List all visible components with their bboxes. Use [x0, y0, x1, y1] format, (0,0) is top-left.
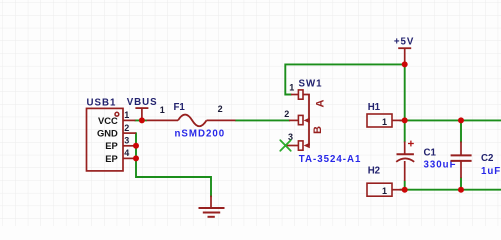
- wire C2 top segment: [460, 120, 462, 142]
- svg-text:1: 1: [289, 82, 294, 92]
- svg-text:C1: C1: [424, 148, 437, 159]
- svg-text:nSMD200: nSMD200: [175, 128, 226, 139]
- junction USB pin3 node: [133, 143, 139, 149]
- svg-text:2: 2: [218, 104, 223, 114]
- wire C2 bottom segment: [460, 178, 462, 190]
- junction C2 top node: [458, 117, 464, 123]
- connector USB1 body: [87, 108, 124, 170]
- SW1 common bar from pin1: [303, 95, 309, 146]
- H2 body: [367, 183, 392, 196]
- svg-text:C2: C2: [481, 153, 493, 164]
- svg-text:1uF: 1uF: [481, 166, 501, 177]
- svg-text:GND: GND: [97, 128, 118, 139]
- SW1 throw arrow at pin 3: [304, 143, 310, 149]
- C1 plus sign: [408, 141, 414, 147]
- junction VBUS node: [139, 117, 145, 123]
- +5V supply stem: [404, 48, 406, 64]
- USB1 pin 1 stub: [123, 119, 136, 121]
- svg-text:USB1: USB1: [87, 97, 117, 108]
- svg-text:1: 1: [124, 110, 129, 120]
- C1 top pin: [404, 142, 406, 155]
- USB1 pin 4 stub: [123, 157, 134, 159]
- wire SW1 pin1 riser to +5V rail: [285, 64, 404, 94]
- wire VBUS: USB1 pin1 to F1 pin1: [135, 119, 147, 121]
- ground stem: [210, 196, 212, 208]
- wire +5V column down to top bus: [404, 64, 406, 120]
- svg-text:2: 2: [284, 109, 289, 119]
- SW1 pin 3 contact: [298, 141, 303, 150]
- C2 top plate: [451, 154, 472, 156]
- C2 bottom pin: [460, 161, 462, 178]
- svg-text:VBUS: VBUS: [127, 97, 158, 108]
- junction USB pin4 node: [133, 155, 139, 161]
- junction H1/+5V/C1 top node: [402, 117, 408, 123]
- svg-text:2: 2: [124, 123, 129, 133]
- svg-text:SW1: SW1: [299, 79, 323, 90]
- no-connect X on SW1 pin 3: [280, 140, 290, 151]
- svg-text:1: 1: [382, 186, 387, 196]
- C1 curved negative plate: [396, 158, 414, 161]
- C1 bottom pin: [404, 161, 406, 181]
- SW1 throw arrow at pin 2: [304, 118, 310, 124]
- USB1 pin 2 stub: [123, 132, 136, 134]
- +5V supply bar: [398, 47, 411, 49]
- svg-text:4: 4: [124, 148, 129, 158]
- C2 bottom plate: [451, 160, 472, 162]
- svg-text:3: 3: [124, 136, 129, 146]
- SW1 pin 2 contact: [298, 115, 303, 124]
- junction C2 bottom node: [458, 187, 464, 193]
- SW1 pin 3 stub: [286, 145, 298, 147]
- VBUS supply symbol (bar + stem): [135, 107, 148, 109]
- svg-text:1: 1: [382, 117, 387, 127]
- svg-text:H1: H1: [368, 102, 381, 113]
- ground bars: [199, 208, 225, 217]
- H1 body: [367, 114, 392, 127]
- wire top bus H1/C1/C2 to right edge: [400, 119, 501, 121]
- wire bottom bus H2/C1/C2 to right edge: [400, 189, 501, 191]
- C1 positive plate: [397, 153, 414, 155]
- wire C1 top segment: [404, 120, 406, 142]
- svg-text:1: 1: [160, 105, 165, 115]
- SW1 pin 1 contact: [298, 90, 303, 99]
- svg-text:H2: H2: [368, 166, 380, 177]
- svg-text:EP: EP: [105, 153, 118, 164]
- svg-text:TA-3524-A1: TA-3524-A1: [299, 154, 362, 165]
- junction H2/C1 bottom node: [402, 187, 408, 193]
- svg-text:A: A: [314, 99, 326, 107]
- SW1 pin 2 stub: [289, 119, 298, 121]
- svg-text:+5V: +5V: [394, 36, 415, 47]
- svg-text:EP: EP: [105, 140, 118, 151]
- H2 pin stub: [392, 189, 403, 191]
- USB1 pin-1 polarity circle: [115, 112, 119, 116]
- wire F1 out to SW1 pin2: [236, 119, 290, 121]
- svg-text:F1: F1: [174, 102, 186, 113]
- wire GND net from USB pins 2,3,4 down to ground: [136, 133, 211, 196]
- wire C1 bottom segment: [404, 181, 406, 190]
- fuse F1 symbol: [147, 115, 236, 127]
- H1 pin stub: [392, 119, 403, 121]
- svg-text:B: B: [312, 126, 324, 134]
- SW1 pin 1 stub: [291, 94, 298, 96]
- C2 top pin: [460, 142, 462, 156]
- junction +5V node: [402, 61, 408, 67]
- svg-text:VCC: VCC: [98, 115, 118, 126]
- USB1 pin 3 stub: [123, 145, 134, 147]
